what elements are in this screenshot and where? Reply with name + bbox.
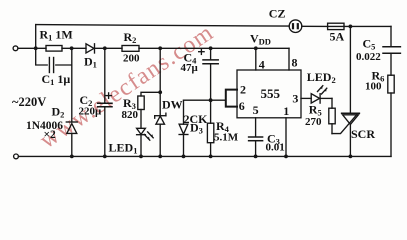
- svg-text:4: 4: [259, 57, 265, 71]
- wire: fuse to right corner: [344, 25, 391, 27]
- terminal: AC input bottom: [14, 154, 19, 159]
- svg-text:2: 2: [240, 82, 246, 96]
- svg-text:820: 820: [122, 109, 139, 121]
- wire: top terminal to R1 node: [18, 47, 46, 49]
- wire: pin 3 output: [301, 97, 311, 99]
- diode D1: [86, 44, 94, 53]
- resistor R6: [388, 75, 394, 93]
- svg-text:DW: DW: [162, 98, 183, 112]
- watermark elecfans.com (red diagonal): [35, 19, 218, 154]
- diode D3 (2CK): [183, 100, 185, 124]
- capacitor C2 (electrolytic): [104, 48, 106, 103]
- wire: riser to top line: [35, 25, 37, 49]
- node: DW branch junction: [158, 46, 162, 50]
- socket CZ: [289, 20, 302, 33]
- resistor R5: [331, 98, 333, 108]
- capacitor C1: [36, 48, 48, 65]
- capacitor C5 snubber: [390, 26, 392, 46]
- node: R1/D1/C1/D2 junction: [70, 46, 74, 50]
- svg-text:6: 6: [239, 99, 245, 113]
- node: C4/R4 junction: [209, 98, 213, 102]
- svg-text:SCR: SCR: [351, 127, 375, 141]
- svg-text:0.01: 0.01: [266, 142, 285, 154]
- wire: CZ to fuse: [302, 25, 328, 27]
- svg-text:47μ: 47μ: [181, 62, 199, 74]
- svg-text:270: 270: [305, 116, 322, 128]
- wire: pin 4: [255, 48, 257, 70]
- svg-text:3: 3: [292, 91, 298, 105]
- capacitor C3: [249, 136, 263, 138]
- node: R3 branch tap: [158, 90, 162, 94]
- wire: SCR anode drop: [349, 26, 351, 113]
- svg-text:5A: 5A: [330, 30, 345, 44]
- LED2: [311, 94, 319, 103]
- node: SCR anode tap: [349, 25, 353, 29]
- wire: R3 branch: [141, 92, 160, 96]
- svg-text:220μ: 220μ: [79, 106, 103, 118]
- svg-text:C1 1μ: C1 1μ: [42, 72, 71, 87]
- terminal: AC input top: [13, 46, 18, 51]
- zener DW: [155, 115, 166, 117]
- fuse 5A: [328, 23, 344, 29]
- wire: R1 to D1: [62, 47, 86, 49]
- svg-text:D1: D1: [84, 54, 97, 69]
- svg-text:C5: C5: [363, 36, 376, 51]
- node VDD: [254, 46, 258, 50]
- svg-text:555: 555: [261, 86, 281, 101]
- LED1: [137, 128, 146, 134]
- node dots bottom rail: [70, 155, 74, 159]
- svg-text:×2: ×2: [44, 129, 57, 141]
- wire: gate lead: [332, 115, 357, 134]
- wire: pins 2-6 bracket: [226, 90, 237, 107]
- svg-text:200: 200: [123, 52, 140, 64]
- wire: trigger node (pins 2/6): [184, 99, 226, 101]
- diode D2: [71, 48, 73, 122]
- svg-text:~220V: ~220V: [12, 95, 46, 109]
- wire: bottom rail: [19, 155, 392, 157]
- wire: DW branch drop: [159, 48, 161, 115]
- capacitor C4 (electrolytic 47u): [210, 48, 212, 59]
- wire: R2 to VDD rail: [139, 47, 289, 49]
- svg-text:8: 8: [292, 55, 298, 69]
- resistor R1: [46, 46, 62, 52]
- svg-text:1: 1: [283, 104, 289, 118]
- svg-text:CZ: CZ: [269, 7, 286, 21]
- svg-text:0.022: 0.022: [356, 51, 381, 63]
- svg-text:R2: R2: [124, 30, 137, 45]
- wire: pin 8: [288, 48, 290, 70]
- wire: pin 5 drop: [255, 118, 257, 137]
- node: R1 left junction: [34, 46, 38, 50]
- transistor SCR (thyristor): [342, 112, 360, 114]
- svg-text:VDD: VDD: [250, 31, 271, 46]
- resistor R3: [138, 96, 144, 110]
- svg-text:D2: D2: [52, 104, 65, 119]
- wire: pin 1 drop: [285, 118, 287, 157]
- svg-text:LED1: LED1: [109, 140, 138, 155]
- resistor R2: [122, 46, 139, 52]
- svg-text:100: 100: [365, 81, 382, 93]
- wire: top line left of CZ: [36, 25, 290, 27]
- svg-text:R1 1M: R1 1M: [40, 28, 73, 43]
- resistor R4: [207, 123, 213, 143]
- op-amp U1: 555 timer box: [237, 70, 301, 118]
- svg-text:LED2: LED2: [307, 70, 336, 85]
- svg-text:5: 5: [253, 103, 259, 117]
- svg-text:5.1M: 5.1M: [214, 131, 239, 143]
